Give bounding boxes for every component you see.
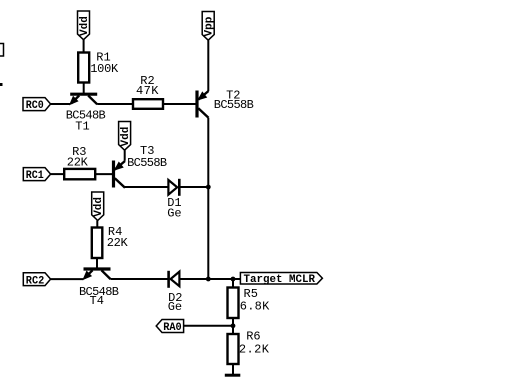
svg-text:Vdd: Vdd [120,127,132,147]
svg-text:Ge: Ge [167,206,181,220]
svg-text:T4: T4 [90,294,104,308]
wire RC2 to T4 [51,278,84,280]
connector RC2 [23,273,50,288]
svg-text:47K: 47K [136,84,159,98]
connector Target MCLR [240,273,322,286]
diode D2 [168,271,183,314]
svg-text:22K: 22K [67,156,89,170]
power symbol Vdd (above R4) [92,192,106,221]
wire RC1 to R3 [51,173,65,175]
svg-text:2.2K: 2.2K [239,342,270,356]
wire Vdd to R4 [96,221,98,228]
wire R3 to T3 base [95,173,113,175]
svg-text:BC558B: BC558B [214,98,254,112]
junction dot collector line / MCLR row [206,277,211,282]
wire R4 to T4 base [96,258,98,269]
transistor T4 [79,269,119,308]
junction dot RA0/R5/R6 [231,323,236,328]
power symbol Vdd (above R1) [78,11,92,40]
resistor R1 [78,50,119,82]
wire RA0 to node [184,325,233,327]
connector RC0 [23,98,51,113]
clipped symbol fragment at left edge [0,44,4,57]
svg-text:RA0: RA0 [163,322,182,334]
svg-text:RC1: RC1 [26,170,44,182]
wire R1 to T1 base [83,83,85,94]
resistor R4 [92,225,129,258]
power symbol Vpp (above T2) [202,12,216,41]
wire Vdd to T3 emitter [124,150,126,161]
wire Vpp to T2 emitter [207,40,209,91]
wire T4 to D2 [111,278,169,280]
svg-text:Vdd: Vdd [79,16,91,36]
svg-text:Target MCLR: Target MCLR [244,274,316,286]
svg-text:100K: 100K [90,62,119,76]
svg-text:T1: T1 [75,120,89,134]
wire R6 to ground [232,364,234,375]
connector RC1 [23,168,50,183]
wire D1 to node [179,186,208,188]
svg-text:RC2: RC2 [26,275,45,287]
wire D2 to node [179,278,208,280]
svg-text:Vdd: Vdd [93,197,105,217]
svg-text:Ge: Ge [168,300,182,314]
power symbol Vdd (above T3) [119,122,133,151]
wire T2 collector down [207,118,209,279]
wire Vdd to R1 [83,40,85,53]
transistor T1 [66,94,106,134]
wire R5 to node [232,318,234,326]
wire node to MCLR connector [208,278,240,280]
junction dot R5 top [231,277,236,282]
svg-text:RC0: RC0 [26,100,44,112]
wire T1 to R2 [97,103,133,105]
svg-text:22K: 22K [107,236,129,250]
svg-text:6.8K: 6.8K [240,300,270,314]
wire RC0 to T1 [51,103,70,105]
clipped wire stub at left edge [0,83,3,86]
wire R2 to T2 base [163,103,197,105]
connector RA0 [156,320,183,335]
svg-text:Vpp: Vpp [204,16,216,36]
transistor T2 [197,89,254,118]
resistor R3 [64,145,95,179]
resistor R5 [228,279,271,318]
ground [225,374,241,377]
svg-text:BC558B: BC558B [127,156,167,170]
resistor R6 [228,326,270,364]
wire T3 collector to D1 [125,186,169,188]
transistor T3 [114,144,168,188]
diode D1 [167,179,181,221]
junction dot D1/collector line [206,185,211,190]
resistor R2 [133,74,163,109]
